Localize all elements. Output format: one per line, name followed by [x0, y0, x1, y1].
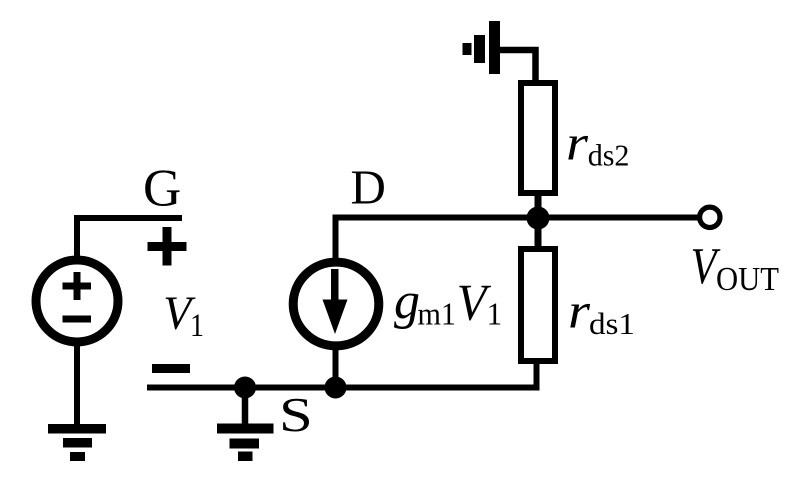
wire: current source bottom to S rail junction: [333, 348, 339, 390]
label V1: [163, 287, 204, 344]
node D label: [351, 160, 386, 215]
svg-text:r: r: [566, 115, 589, 171]
label V1 polarity +: [148, 227, 187, 266]
ground (at node S): [217, 424, 274, 462]
wire: from top ground to rds2 top: [494, 50, 536, 86]
ground (top, sideways, above rds2): [463, 21, 501, 74]
wire: voltage source bottom to ground: [74, 344, 80, 427]
svg-text:g: g: [394, 273, 420, 330]
wire: rds2 bottom through junction to rds1 top: [535, 193, 542, 251]
svg-text:1: 1: [190, 308, 204, 344]
current source gm1V1: [293, 262, 379, 346]
svg-text:OUT: OUT: [716, 261, 779, 298]
junction at output node: [527, 207, 550, 230]
svg-text:G: G: [143, 160, 181, 218]
label V1 polarity -: [152, 364, 190, 373]
label gm1V1: [394, 273, 502, 332]
svg-text:ds2: ds2: [588, 138, 630, 173]
junction at current source / S rail: [325, 377, 347, 399]
terminal VOUT (open circle): [700, 207, 720, 227]
node S label: [279, 387, 313, 442]
label VOUT: [691, 238, 779, 298]
ground (below voltage source): [48, 424, 106, 461]
resistor rds1: [521, 249, 555, 361]
label rds2: [566, 115, 630, 173]
svg-text:D: D: [351, 160, 386, 215]
wire G: from node G corner down to voltage source V1 top: [77, 218, 182, 260]
svg-text:ds1: ds1: [589, 306, 635, 341]
svg-text:m1: m1: [418, 296, 457, 332]
wire S: bottom rail from minus end to rds1 bottom: [147, 361, 537, 388]
node G label: [143, 160, 181, 218]
svg-text:S: S: [279, 387, 313, 442]
wire D: top rail from VOUT terminal through junction to current source top: [336, 218, 701, 263]
resistor rds2: [521, 83, 555, 193]
label rds1: [568, 283, 635, 342]
junction at S ground tap: [234, 377, 256, 399]
voltage source V1: [36, 260, 118, 342]
svg-text:r: r: [568, 283, 591, 339]
wire: stub from S rail to ground: [242, 388, 249, 427]
svg-text:1: 1: [487, 296, 503, 332]
